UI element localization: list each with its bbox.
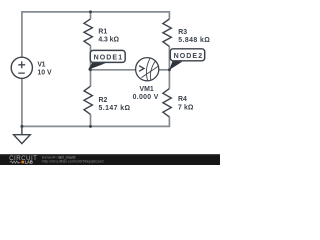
label V1 value xyxy=(37,62,52,77)
svg-text:NODE2: NODE2 xyxy=(174,53,203,60)
svg-text:NODE1: NODE1 xyxy=(94,55,123,62)
svg-text:http://circuitlab.com/c/6r5bkp: http://circuitlab.com/c/6r5bkpq6cax3 xyxy=(42,159,104,163)
wire: R1 top stub xyxy=(90,12,92,19)
wire: V1 bottom down to bottom rail xyxy=(21,78,23,126)
junction dot NODE2 xyxy=(168,68,171,71)
svg-text:VM1: VM1 xyxy=(140,86,154,93)
junction dot NODE1 xyxy=(89,68,92,71)
svg-text:LAB: LAB xyxy=(25,160,34,165)
wire: R1 bottom to R2 top xyxy=(90,46,92,87)
svg-text:5.848 kΩ: 5.848 kΩ xyxy=(178,37,210,44)
node NODE2 flag pointer xyxy=(169,61,182,70)
junction dot R1 top xyxy=(89,10,92,13)
footer project text xyxy=(42,155,104,163)
svg-text:5.147 kΩ: 5.147 kΩ xyxy=(99,105,131,112)
node NODE1 flag pointer xyxy=(88,63,106,70)
wire: middle rail left to voltmeter xyxy=(91,69,137,71)
voltage source V1 xyxy=(11,57,32,78)
wire: voltmeter to middle rail right xyxy=(159,69,170,71)
label R3 value xyxy=(178,29,210,44)
node NODE2 label box xyxy=(170,49,204,61)
label VM1 value xyxy=(133,86,159,101)
label R2 value xyxy=(99,97,131,112)
svg-text:V1: V1 xyxy=(37,62,45,69)
wire: top rail from V1 up across to R3 branch xyxy=(22,12,170,57)
svg-text:7 kΩ: 7 kΩ xyxy=(178,105,194,112)
svg-text:4.3 kΩ: 4.3 kΩ xyxy=(98,37,119,44)
ground xyxy=(14,126,31,143)
wire: bottom rail across to R4 xyxy=(22,117,170,127)
resistor R1 xyxy=(84,19,92,46)
resistor R4 xyxy=(163,89,171,117)
node NODE1 label box xyxy=(90,50,125,62)
footer CircuitLab logo xyxy=(9,155,37,166)
footer bar xyxy=(0,154,220,165)
resistor R3 xyxy=(163,19,171,46)
svg-text:R1: R1 xyxy=(98,28,107,35)
resistor R2 xyxy=(84,86,92,114)
label R1 value xyxy=(98,28,119,43)
svg-text:R3: R3 xyxy=(178,29,187,36)
junction dot R2 bottom xyxy=(89,125,92,128)
wire: R2 bottom stub xyxy=(90,114,92,126)
junction dot ground xyxy=(20,125,23,128)
svg-text:R4: R4 xyxy=(178,96,187,103)
wire: R3 bottom to R4 top xyxy=(168,46,170,88)
svg-text:0.000 V: 0.000 V xyxy=(133,94,159,101)
svg-text:10 V: 10 V xyxy=(37,70,52,77)
voltmeter VM1 xyxy=(136,58,159,81)
svg-text:R2: R2 xyxy=(99,97,108,104)
label R4 value xyxy=(178,96,194,112)
